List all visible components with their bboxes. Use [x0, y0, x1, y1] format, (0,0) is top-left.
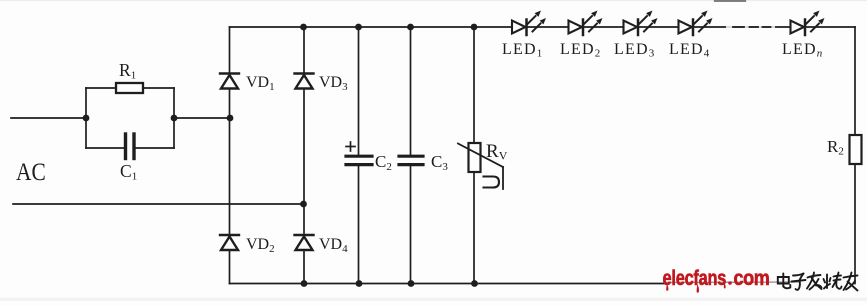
- wire bridge left vertical VD1/VD2: [229, 27, 231, 284]
- capacitor C3: [399, 27, 423, 284]
- svg-text:AC: AC: [16, 158, 46, 186]
- wire AC top lead: [11, 117, 86, 119]
- node dot bottom rail C3: [408, 280, 415, 287]
- varistor RV: [458, 27, 503, 284]
- diode VD1: [220, 74, 239, 89]
- svg-text:com: com: [734, 267, 770, 291]
- wire C1 bottom branch left: [86, 147, 125, 149]
- watermark elecfans.com logo: [663, 266, 727, 289]
- wire right vertical: [854, 27, 856, 284]
- top edge artifact line: [715, 0, 746, 2]
- glyph you: [844, 273, 858, 291]
- node dot bottom rail RV: [471, 280, 478, 287]
- wire R1 top branch: [86, 87, 174, 89]
- glyph shao: [824, 273, 842, 289]
- node dot bottom rail C2: [356, 280, 363, 287]
- svg-text:LEDn: LEDn: [782, 41, 823, 60]
- node dot top rail C3: [407, 24, 414, 31]
- wire R1C1 to bridge: [174, 117, 230, 119]
- label AC: [16, 158, 46, 186]
- node dot bottom rail VD4: [301, 280, 308, 287]
- diode VD3: [295, 74, 314, 89]
- LED LED4: [679, 11, 713, 36]
- resistor R1: [116, 83, 143, 93]
- node dot bridge left midpoint: [227, 115, 234, 122]
- resistor R2: [850, 135, 862, 164]
- glyph fa: [807, 273, 822, 290]
- watermark chinese text 电子发烧友: [778, 273, 858, 291]
- glyph dian: [778, 274, 791, 289]
- watermark logo drips: [666, 283, 726, 293]
- svg-text:LED1: LED1: [502, 41, 542, 60]
- node dot R1C1 right: [171, 115, 178, 122]
- node dot top rail RV: [471, 24, 478, 31]
- node dot top rail C2: [355, 24, 362, 31]
- node dot AC-R1C1 left: [83, 115, 90, 122]
- wire bottom rail: [230, 283, 666, 285]
- svg-text:LED3: LED3: [614, 41, 655, 60]
- wire R1C1 loop right: [173, 88, 175, 148]
- wire R1C1 loop left: [85, 88, 87, 148]
- svg-text:LED2: LED2: [560, 41, 600, 60]
- LED LED1: [512, 11, 546, 36]
- svg-text:elecfans: elecfans: [663, 266, 727, 289]
- diode VD4: [295, 235, 314, 250]
- wire bottom rail right faded segment: [665, 281, 800, 284]
- wire C1 bottom branch right: [135, 147, 175, 149]
- wire AC bottom lead: [13, 203, 304, 205]
- node dot bridge right midpoint: [300, 201, 307, 208]
- wire bridge right vertical VD3/VD4: [303, 27, 305, 284]
- capacitor C2: [346, 27, 372, 284]
- glyph zi: [792, 274, 806, 290]
- capacitor C1: [126, 134, 135, 159]
- LED LED3: [624, 11, 658, 36]
- wire top rail: [230, 26, 856, 28]
- LED LED2: [569, 11, 603, 36]
- diode VD2: [220, 235, 239, 250]
- LED LEDn: [791, 11, 825, 36]
- node dot top rail VD3: [300, 24, 307, 31]
- wire dashed segment before LEDn: [726, 26, 775, 28]
- svg-text:LED4: LED4: [669, 41, 710, 60]
